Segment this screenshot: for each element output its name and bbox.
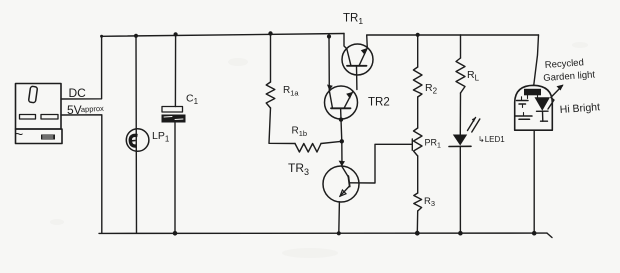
svg-text:PR1: PR1 xyxy=(425,138,442,150)
svg-text:R2: R2 xyxy=(425,82,438,96)
svg-text:C1: C1 xyxy=(186,93,199,107)
svg-text:RL: RL xyxy=(467,69,480,83)
svg-text:TR1: TR1 xyxy=(343,13,363,27)
svg-text:~: ~ xyxy=(15,126,24,143)
svg-text:TR2: TR2 xyxy=(368,97,390,109)
svg-text:approx: approx xyxy=(81,104,105,114)
svg-text:Recycled: Recycled xyxy=(544,57,584,71)
svg-text:↳LED1: ↳LED1 xyxy=(478,135,505,144)
svg-text:Garden light: Garden light xyxy=(543,69,596,84)
svg-text:R3: R3 xyxy=(424,196,435,208)
svg-text:R1a: R1a xyxy=(283,85,299,98)
svg-text:LP1: LP1 xyxy=(152,130,170,144)
svg-text:DC: DC xyxy=(69,86,87,100)
svg-text:Hi Bright: Hi Bright xyxy=(559,101,600,116)
svg-text:5V: 5V xyxy=(67,103,82,117)
svg-text:R1b: R1b xyxy=(292,126,308,139)
svg-text:TR3: TR3 xyxy=(288,161,309,177)
